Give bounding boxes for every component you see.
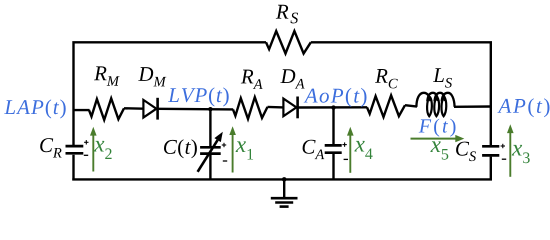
wire: RC to LS xyxy=(405,105,417,106)
label RS xyxy=(276,5,298,24)
wire: LS to AP node xyxy=(454,105,492,108)
flow label F(t) xyxy=(419,119,456,137)
state label x3 xyxy=(512,145,530,163)
label RA xyxy=(241,70,263,89)
label RM xyxy=(94,66,120,85)
node label LVP(t) xyxy=(168,87,229,106)
ground xyxy=(271,179,298,206)
state arrow x3 xyxy=(507,124,514,177)
wire: DA to RC through AoP junction xyxy=(298,106,368,109)
wire: AoP branch lower xyxy=(332,154,334,181)
wire: LVP branch upper xyxy=(209,108,211,146)
capacitor CS plates xyxy=(482,146,499,155)
node label AP(t) xyxy=(497,98,549,117)
wire: top-right run + right rail upper xyxy=(311,42,491,146)
label CR xyxy=(40,138,61,157)
state label x2 xyxy=(94,141,112,159)
inductor LS xyxy=(416,93,454,116)
state arrow x2 xyxy=(90,127,97,172)
junction dot: LVP node xyxy=(208,107,212,111)
wire: RM to DM xyxy=(124,107,144,110)
state arrow x1 xyxy=(229,126,236,172)
wire: left rail lower xyxy=(72,155,74,181)
label CS xyxy=(456,142,476,162)
resistor RA xyxy=(233,97,268,119)
diode DM xyxy=(143,98,157,120)
wire: bottom rail xyxy=(72,178,492,180)
wire: left rail upper + top-left run xyxy=(74,42,267,145)
wire: RA to DA xyxy=(268,106,284,109)
label LS xyxy=(433,68,452,87)
capacitor C(t) plates xyxy=(200,147,221,153)
label CA xyxy=(303,140,325,159)
state label x1 xyxy=(236,141,254,159)
wire: LVP branch lower xyxy=(209,155,211,181)
variable capacitor arrow through C(t) xyxy=(198,132,223,172)
wire: LAP node to RM xyxy=(73,109,90,111)
junction dot: ground node xyxy=(282,177,287,182)
state arrow x4 xyxy=(347,127,354,173)
resistor RM xyxy=(89,98,124,120)
resistor RS xyxy=(266,31,311,53)
wire: AoP branch upper xyxy=(332,107,334,145)
node label AoP(t) xyxy=(304,88,367,107)
polarity marks C(t) xyxy=(222,143,227,161)
label DA xyxy=(280,69,304,88)
capacitor CR plates xyxy=(66,146,84,153)
label RC xyxy=(375,69,398,88)
polarity marks CS xyxy=(501,144,507,159)
label DM xyxy=(138,67,166,86)
wire: DM to RA through LVP junction xyxy=(158,108,234,111)
polarity marks CA xyxy=(342,142,348,159)
resistor RC xyxy=(367,95,405,117)
state label x5 xyxy=(430,141,448,159)
junction dot: AoP node xyxy=(331,105,335,109)
label C(t) xyxy=(164,139,197,158)
wire: right rail lower xyxy=(490,157,492,181)
state label x4 xyxy=(354,141,372,159)
capacitor CA plates xyxy=(325,145,342,152)
node label LAP(t) xyxy=(4,99,65,118)
diode DA xyxy=(283,97,297,119)
polarity marks CR xyxy=(84,140,89,155)
flow arrow F(t)/x5 xyxy=(411,135,465,142)
